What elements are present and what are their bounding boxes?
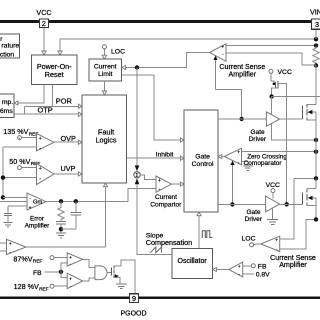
wire Current Limit to Fault Logics [104,81,106,91]
wire FB to window comparators [45,271,62,273]
svg-text:Compensation: Compensation [146,238,192,247]
comparator A (PGOOD upper) [67,253,83,266]
label Gate Driver (2) [245,209,263,223]
wire ZC + input to SW rail [242,151,317,153]
svg-text:+: + [39,166,42,172]
node dot junction on driver1 input [239,117,243,121]
wire UVP output [54,173,82,175]
svg-text:+: + [29,205,32,210]
wire 0.8V reference [243,273,254,275]
wire BOOT to edge [272,96,320,98]
wire compA to AND gate [83,259,95,267]
svg-text:FB: FB [258,263,267,270]
svg-text:+: + [238,264,241,269]
pin 87% circle [50,256,54,260]
label 128%VREF [14,282,49,292]
svg-text:+: + [69,255,72,260]
wire POR signal vertical [52,85,54,107]
node dot on driver2 output [285,202,289,206]
box Power-On-Reset [32,55,78,84]
op-amp zero crossing comparator [224,148,241,165]
FET2 drain stub [307,187,316,189]
ground at ZC - input [243,166,252,171]
svg-text:Driver: Driver [245,216,263,223]
pin LOC circle (top) [102,45,106,49]
svg-text:POR: POR [56,97,72,106]
wire driver1 input [218,118,266,120]
sawtooth glyph [150,247,161,253]
wire CSA1 sense input from below [215,58,217,90]
box Gate Control [184,110,218,212]
chevron arrow into Fault Logics (UVP) [78,172,82,176]
wire 135% to OVP + [19,138,21,140]
op-amp FB/0.8V comparator [229,262,243,277]
wire SW rail to FET2 drain [315,178,317,188]
pin box VCC pin 2 [40,19,49,27]
wire comparator K output to Fault Logics [26,246,106,248]
op-amp OVP comparator [37,133,55,151]
wire joining POR and OTP lines [24,106,26,114]
svg-text:PGOOD: PGOOD [120,311,146,318]
FET1 drain stub [307,104,316,106]
svg-text:mp.: mp. [2,99,13,106]
pin box VIN pin 3 [311,19,320,29]
svg-text:ction: ction [0,51,14,58]
pin box PGOOD pin 9 [130,294,139,303]
svg-text:2: 2 [42,19,46,28]
svg-text:VCC: VCC [266,182,280,189]
pin 135%VREF circle [18,136,22,140]
wire driver2 ground [272,208,274,219]
wire CSA2 output to LOC [254,243,261,246]
svg-text:Σ: Σ [135,173,138,179]
FET1 body arrow [307,110,312,114]
wire summing node to current comparator + [140,175,156,180]
wire sense line down to gate driver1 input [216,90,242,119]
svg-text:Driver: Driver [249,136,267,143]
resistor Rc compensation [58,201,64,221]
label Zero Crossing Comoparator [244,153,288,167]
wire current sense to summing node [136,68,138,166]
svg-text:VCC: VCC [278,69,292,76]
svg-text:UVP: UVP [61,164,76,173]
svg-text:50 %V: 50 %V [9,157,30,166]
pin VCC circle (boot switch) [269,69,273,73]
wire 87% to compA [54,256,67,258]
wire FB to EA - input [3,196,27,198]
svg-text:+: + [158,178,161,184]
solid arrow up into summing node [135,178,140,184]
arrow into POR top (from VCC) [42,51,46,55]
clock waveform glyph [202,231,212,238]
svg-text:3: 3 [315,20,319,29]
node dot SW rail at ZC [314,150,318,154]
wire VCC pin to Power-On-Reset [43,28,45,51]
wire VCC to driver2 [272,193,274,199]
node dot FB rail at EA [1,195,5,199]
svg-text:87%V: 87%V [13,254,32,263]
wire Fault Logics bottom input [105,187,107,247]
wire comparator to oscillator [216,269,229,271]
wire FB rail vertical [2,147,4,197]
svg-text:Comoparator: Comoparator [244,160,283,167]
op-amp UVP comparator [37,163,55,184]
svg-text:Gate: Gate [195,153,210,160]
label Current Compartor [150,194,182,209]
node dot on CSA1 output wire [135,65,139,69]
label Current Sense Amplifier (top) [219,63,265,78]
svg-text:Inhibit: Inhibit [156,152,174,159]
svg-text:VIN: VIN [310,8,320,17]
node dot below Rsense [314,63,318,67]
chevron arrow into Gate Control (current limit) [180,138,184,142]
op-amp Gm error amplifier [27,193,46,210]
node dot COMP at Rc [59,199,63,203]
wire CSA2 - input sense [280,219,316,248]
comparator B (PGOOD lower) [67,273,83,288]
arrow into Fault Logics top [102,91,106,95]
svg-text:9: 9 [132,294,136,303]
label 87%VREF [13,254,42,264]
chevron arrow up into Fault Logics bottom [103,183,107,187]
svg-text:Gate: Gate [246,209,260,216]
svg-text:6ms: 6ms [0,108,13,115]
wire LOC to Current Limit [103,49,105,55]
svg-text:Amplifier: Amplifier [25,223,50,230]
ground below compensation [56,233,66,238]
chevron arrow into Fault Logics (POR) [78,104,82,108]
node dot FB rail at UVP [1,175,5,179]
wire CSA1 + input to VIN rail [226,45,316,47]
transistor FET2 low side [301,192,303,204]
box temp delay (clipped at left) [0,94,14,118]
svg-text:REF: REF [33,259,43,265]
wire EA + input to soft-start cap [8,205,27,207]
arrow into delay box right edge [14,101,18,105]
IC top border thick line [0,20,311,23]
wire oscillator to Gate Control [198,216,200,249]
svg-text:+: + [222,45,225,50]
pin VCC circle (driver2) [271,189,275,193]
capacitor on EA + input [7,206,9,213]
wire driver2 output to FET2 gate [280,203,303,205]
arrow into Current Limit top [102,55,106,59]
wire VCC to boot switch gate [271,73,274,83]
label 135%VREF [3,127,38,137]
wire ZC sense from driver2 output [231,164,233,205]
label Error Amplifier [25,215,50,229]
node dot Cc/Cp junction [59,227,63,231]
wire VIN rail to FET1 drain [315,66,317,105]
node dot rail1/VIN [314,37,318,41]
wire comparator K - input [0,250,7,252]
wire comparator K top input [0,242,7,244]
capacitor Cp compensation [75,201,77,212]
svg-text:+: + [69,276,72,281]
arrow into Current Limit right edge [122,65,126,69]
wire pin3 to rail [315,29,317,39]
svg-text:Compartor: Compartor [150,202,182,209]
chevron arrow up into Gate Control bottom [197,212,201,216]
arrow into Oscillator right edge [213,267,217,271]
wire VREF to EA middle input [0,201,27,203]
node dot SW at driver1 [314,138,318,142]
transistor PGOOD open-drain FET [110,268,112,276]
capacitor Cc compensation [56,220,66,222]
svg-text:+: + [9,242,12,248]
wire boot switch to driver2 output (long vertical) [278,83,287,204]
wire POR line to Fault Logics [25,105,82,107]
label 50%VREF [9,157,40,167]
FET2 body arrow [308,196,313,200]
wire driver2 input [218,203,266,205]
wire current comparator output [172,183,182,185]
wire PGOOD FET drain to pin 9 [114,260,135,294]
wire FET1 source to SW rail [315,120,317,178]
node dot rail2 [314,43,318,47]
wire FB to UVP - [3,177,37,179]
transistor boot switch [274,82,276,88]
wire AND to PGOOD FET gate [107,272,111,274]
wire CSA2 + input sense [280,178,316,239]
svg-text:Limit: Limit [98,71,112,78]
wire CSA1 - input to bottom of Rsense [226,53,316,65]
wire ZC - input to ground [242,162,248,166]
svg-text:LOC: LOC [242,235,256,242]
wire 128% to compB [54,285,67,287]
svg-text:+: + [275,237,278,242]
pin LOC circle (bottom) [250,243,254,247]
op-amp CSA2 current sense amplifier (bottom) [261,236,280,251]
op-amp CSA1 current sense amplifier (top) [210,44,226,62]
svg-text:Error: Error [30,215,44,222]
pin FB circle (bottom) [243,265,252,267]
box Fault Logics [82,95,127,183]
FET2 source stub [307,205,316,207]
svg-text:OTP: OTP [38,106,53,115]
pin 128% circle [50,284,54,288]
ground below PGOOD FET [116,284,126,289]
node dot on driver2 input line [230,202,234,206]
chevron arrow into Fault Logics (OVP) [78,140,82,144]
wire OTP line to Fault Logics [14,113,81,115]
svg-text:rature: rature [1,42,19,49]
wire CSA1 output to Current Limit [126,53,210,68]
svg-text:Oscillator: Oscillator [178,258,208,265]
wire driver1 low side to SW [272,124,316,140]
svg-text:+: + [237,150,240,155]
node dot FET2 source [314,217,318,221]
label Gate Driver (1) [249,129,267,143]
label Slope Compensation [146,232,192,246]
wire slope compensation to summing node [137,184,172,255]
FET1 source stub [307,119,316,121]
svg-text:VCC: VCC [36,8,51,17]
svg-text:OVP: OVP [61,134,77,143]
label Current Sense Amplifier (bottom) [270,254,316,269]
wire COMP rail (EA output) [46,188,156,201]
svg-text:Reset: Reset [45,70,64,79]
wire boot switch source to BOOT node [272,88,278,97]
box Current Limit [89,59,122,81]
solid arrow down into summing node [135,165,140,171]
wire 50% to UVP + [22,167,37,169]
svg-text:0.8V: 0.8V [256,272,270,279]
box Over Temperature Protection (clipped at left) [0,34,19,58]
resistor Rsense on VIN rail [313,46,319,66]
solid arrow up into CSA1 [213,56,217,60]
op-amp gate driver 2 [266,196,280,212]
wire FB to OVP - [3,146,37,148]
svg-text:Logics: Logics [95,136,116,145]
svg-text:Gm: Gm [33,199,43,205]
svg-text:Gate: Gate [251,129,265,136]
svg-text:Amplifier: Amplifier [279,261,307,269]
wire Current Limit to Gate Control [122,75,182,140]
svg-text:+: + [39,136,42,142]
node dot BOOT [269,94,273,98]
wire VIN rail1 horizontal [60,39,316,51]
comparator K (left bottom, clipped) [7,239,27,254]
svg-text:128 %V: 128 %V [14,282,39,291]
summing node circle [134,172,140,178]
svg-text:135 %V: 135 %V [3,127,28,136]
wire driver1 output to FET1 gate [280,118,303,120]
chevron arrow into Gate Control (PWM) [180,182,184,186]
svg-text:Current: Current [94,64,117,71]
wire BOOT to driver1 supply [271,97,273,115]
wire OVP output [54,141,82,143]
op-amp current comparator [156,176,172,192]
ground below EA + cap [3,222,12,227]
transistor FET1 high side [301,106,303,120]
solid arrow up into ZC comparator [230,161,234,165]
wire POR box to delay box [18,85,44,103]
ground below driver2 [267,220,278,225]
box Oscillator [172,248,213,278]
arrow into POR top (from rail1) [58,51,62,55]
node dot COMP at Cp [74,199,78,203]
node dot SW at CSA2 sense [314,176,318,180]
chevron arrow into Gate Control (Inhibit) [180,156,184,160]
arrow into Gate Control right (zero crossing) [222,156,224,158]
svg-text:Control: Control [192,161,214,168]
wire compB to AND gate [83,278,95,281]
svg-text:REF: REF [39,286,49,292]
wire Inhibit [127,157,181,159]
op-amp gate driver 1 [266,112,279,126]
svg-text:LOC: LOC [111,49,125,56]
svg-text:Current: Current [155,194,177,201]
svg-text:FB: FB [33,270,42,277]
IC bottom border thick line [0,296,320,299]
chevron arrow into Fault Logics (OTP) [78,112,82,116]
svg-text:Amplifier: Amplifier [229,70,257,78]
AND gate PGOOD logic [95,266,107,280]
pin 50%VREF circle [18,166,22,170]
